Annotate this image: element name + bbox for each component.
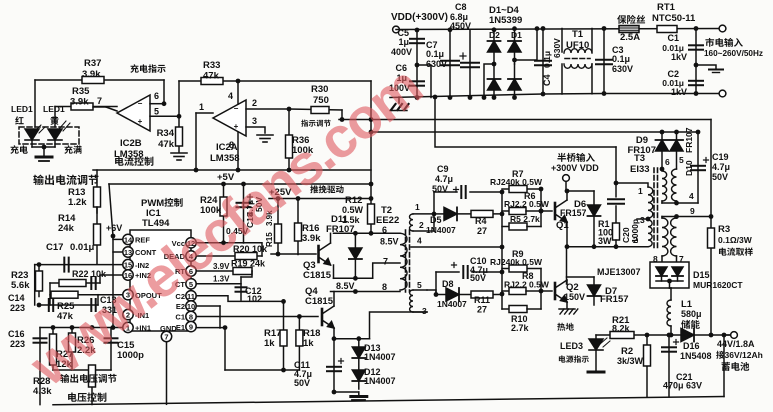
transistor Q2 MJE13007 (555, 280, 567, 302)
resistor R35 (71, 103, 93, 110)
resistor R26 (71, 328, 73, 371)
T2 secondary top (pins 1-2) (409, 214, 413, 231)
resistor R36 (288, 109, 290, 170)
label voltage control (68, 392, 106, 401)
svg-text:27: 27 (477, 305, 487, 315)
svg-text:1.3V: 1.3V (213, 275, 230, 284)
wire Q3 emitter row (334, 277, 373, 279)
svg-text:0.1Ω/3W: 0.1Ω/3W (718, 235, 753, 245)
wire IC2A pin4 supply (237, 81, 239, 104)
svg-text:3: 3 (422, 306, 427, 316)
resistor R37 (82, 77, 104, 84)
svg-text:R11: R11 (474, 295, 490, 305)
wire IC2A pin2 (246, 108, 289, 110)
svg-text:RJ2.2 0.5W: RJ2.2 0.5W (504, 199, 550, 209)
svg-text:T3: T3 (634, 153, 645, 164)
wire IC2A output pin1 (196, 112, 213, 114)
svg-text:2: 2 (419, 220, 424, 230)
svg-text:4: 4 (689, 191, 694, 201)
svg-text:TL494: TL494 (142, 218, 170, 229)
svg-text:D1: D1 (511, 30, 522, 40)
wire E2 row (196, 305, 220, 307)
svg-text:4: 4 (417, 236, 422, 246)
svg-text:9: 9 (189, 323, 193, 332)
resistor R7 (509, 186, 527, 193)
svg-text:0.1μ: 0.1μ (426, 49, 444, 59)
svg-text:1N4007: 1N4007 (364, 352, 396, 362)
svg-text:MUR1620CT: MUR1620CT (693, 280, 743, 290)
T3 primary winding (648, 187, 653, 218)
label indication adjust (301, 120, 330, 127)
wire C20 to T3 pin1 (616, 183, 648, 187)
svg-text:MJE13007: MJE13007 (597, 267, 641, 277)
wire GND pin down (166, 342, 168, 405)
svg-text:1: 1 (638, 186, 643, 196)
svg-text:LM358: LM358 (210, 153, 240, 164)
capacitor C18 (243, 184, 245, 243)
diode D2 (bridge top-left) (493, 30, 495, 64)
diode D6 (593, 191, 595, 247)
wire LED cathodes join (31, 140, 33, 147)
capacitor C4 (542, 29, 544, 95)
wire E1 row (196, 327, 225, 329)
capacitor C8 (469, 30, 471, 98)
wire C5/C6 midpoint branch (417, 65, 431, 98)
wire Q3 collector (330, 233, 332, 243)
wire IC2A pin8 (237, 132, 239, 170)
svg-text:D10: D10 (684, 160, 694, 176)
pin 16 +IN2 (123, 270, 133, 280)
svg-text:0.1μ: 0.1μ (612, 54, 630, 64)
svg-text:3.9k: 3.9k (302, 233, 321, 244)
svg-text:5: 5 (679, 155, 684, 165)
svg-text:T1: T1 (572, 29, 584, 40)
capacitor C11 (333, 339, 335, 392)
svg-text:3: 3 (252, 116, 257, 126)
svg-text:150V: 150V (564, 292, 585, 302)
svg-text:630V: 630V (426, 59, 447, 69)
svg-text:6: 6 (382, 225, 387, 235)
svg-text:−: − (234, 104, 239, 113)
wire Q4 emitter row (334, 338, 370, 340)
svg-text:1μ: 1μ (398, 37, 409, 47)
svg-text:630V: 630V (612, 64, 633, 74)
T2 secondary bottom (pins 5-3) (410, 290, 413, 312)
resistor R4 (457, 213, 502, 215)
transistor Q3 C1815 (319, 243, 331, 265)
svg-text:10: 10 (187, 302, 195, 311)
ground (under C6) (398, 97, 400, 103)
resistor R5 (502, 226, 509, 228)
op-amp IC2B LM358 (117, 95, 150, 131)
wire battery return (723, 335, 725, 397)
diode D1 (bridge top-right) (514, 29, 516, 64)
wire bridge AC tap left (484, 64, 494, 98)
svg-text:D16: D16 (683, 341, 700, 351)
wire R17/R18 bottom row (225, 369, 299, 371)
svg-text:C1815: C1815 (305, 296, 334, 307)
svg-text:36V/12Ah: 36V/12Ah (725, 350, 763, 360)
resistor R23 (38, 265, 40, 297)
diode D8 (436, 294, 446, 296)
svg-text:+: + (138, 117, 143, 126)
terminal mains L (719, 25, 726, 32)
label output voltage adjust (60, 374, 116, 383)
capacitor C20 + resistor R1 snubber (615, 147, 617, 197)
pin 11 C2 (186, 291, 196, 301)
svg-text:FR157: FR157 (560, 208, 587, 218)
T3 secondary winding right (671, 218, 677, 256)
wire L1 to output row (670, 326, 672, 335)
svg-text:REF: REF (135, 236, 150, 245)
svg-text:7: 7 (383, 257, 388, 267)
svg-text:C4: C4 (542, 74, 552, 86)
pin 6 RT (186, 266, 196, 276)
capacitor C13 plates (91, 277, 95, 289)
LED1 red/yellow dashed box (19, 127, 79, 144)
wire +IN2 branch (100, 275, 122, 283)
svg-text:14: 14 (124, 235, 133, 244)
resistor R2 (646, 335, 648, 397)
wire midpoint row (567, 246, 648, 248)
wire bottom return line (390, 94, 723, 98)
svg-text:1N5399: 1N5399 (489, 15, 522, 26)
wire emitters down to R17/R18 bottom row (224, 328, 226, 370)
svg-text:7: 7 (164, 333, 168, 342)
fuse 2.5A (619, 26, 639, 33)
resistor R13 (96, 170, 98, 213)
wire pin4 row (661, 201, 663, 203)
svg-text:5: 5 (154, 107, 159, 117)
node VDD (+300V) terminal (393, 26, 400, 33)
wire CT row (196, 283, 241, 285)
wire Q2 emitter (566, 302, 568, 308)
svg-text:5: 5 (417, 280, 422, 290)
pin 4 DEAD (186, 251, 196, 261)
svg-text:C16: C16 (8, 329, 25, 339)
svg-text:C8: C8 (455, 2, 467, 12)
capacitor C5 (416, 30, 418, 98)
svg-text:GND: GND (160, 324, 177, 333)
capacitor C7 (449, 30, 451, 98)
svg-text:1kV: 1kV (671, 52, 687, 62)
label current control (115, 156, 153, 165)
svg-text:3.9k: 3.9k (70, 97, 89, 108)
svg-text:R19 24k: R19 24k (231, 259, 266, 269)
T3 pin3 stub (637, 218, 648, 220)
wire junction R37 to pin6 (163, 80, 165, 104)
terminal battery + (731, 332, 738, 339)
resistor R28 (91, 370, 93, 405)
wire Q1 collector row to D6 (567, 190, 594, 192)
capacitor C10 (435, 272, 437, 295)
svg-text:LED1: LED1 (43, 104, 65, 114)
wire R30 down to sense line (341, 110, 343, 120)
resistor R7 row (502, 188, 541, 190)
diode D7 (567, 276, 595, 278)
wire Q1 emitter (566, 222, 568, 247)
wire R20 up (244, 243, 263, 256)
terminal +300V half-bridge (563, 175, 570, 182)
svg-text:1N5408: 1N5408 (680, 351, 712, 361)
transistor Q1 MJE13007 (555, 200, 567, 222)
wire halfbridge line y147 (435, 97, 616, 147)
svg-text:470μ 63V: 470μ 63V (663, 381, 702, 391)
svg-text:8: 8 (382, 282, 387, 292)
label charge indication (130, 64, 165, 73)
svg-text:2: 2 (633, 235, 638, 245)
svg-text:1k: 1k (303, 338, 314, 349)
wire Q2 collector (566, 280, 568, 284)
svg-text:R5 2.7k: R5 2.7k (510, 214, 540, 224)
diode D3 (bridge bottom-left) (493, 64, 495, 98)
pin 10 E2 (186, 301, 196, 311)
resistor R34 (178, 116, 180, 152)
resistor R25 (51, 291, 78, 298)
svg-text:223: 223 (10, 303, 25, 313)
LED1 yellow diode (48, 129, 62, 140)
resistor R15 (277, 199, 279, 255)
wire IC2A pin3 (246, 127, 265, 133)
svg-text:R33: R33 (203, 60, 220, 71)
diode D12 (352, 370, 365, 381)
resistor R11 (459, 294, 502, 296)
pin 15 -IN2 (123, 259, 133, 269)
svg-text:LED1: LED1 (11, 104, 33, 114)
wire Q4 collector (333, 292, 335, 307)
label mains input (705, 38, 742, 47)
wire output row (596, 334, 731, 336)
label push-pull drive (310, 185, 343, 193)
T3 aux winding left pin6 (660, 167, 665, 172)
svg-text:2: 2 (252, 98, 257, 108)
wire Q4 emitter (333, 328, 335, 339)
diode D4 (bridge bottom-right) (514, 64, 516, 98)
svg-text:RT1: RT1 (657, 2, 676, 13)
svg-text:D2: D2 (489, 30, 500, 40)
svg-text:1: 1 (415, 202, 420, 212)
svg-text:C1815: C1815 (303, 270, 332, 281)
resistor R9 row (502, 268, 541, 270)
svg-text:D5: D5 (430, 215, 442, 225)
svg-text:8.5V: 8.5V (336, 281, 355, 291)
resistor R10 (502, 308, 509, 310)
svg-text:5.6k: 5.6k (11, 280, 30, 291)
diode D13 (352, 347, 365, 358)
svg-text:7: 7 (97, 96, 102, 106)
svg-text:+6V: +6V (106, 223, 122, 233)
resistor R6 row (502, 210, 509, 212)
capacitor C19 (697, 132, 699, 203)
resistor R19 (233, 268, 252, 275)
resistor R16 (297, 199, 299, 255)
wire base row to Q1 (526, 210, 552, 212)
wire top 300V/AC line (396, 29, 723, 30)
wire aux supply line y132 (371, 131, 698, 133)
capacitor C12 (241, 271, 252, 277)
svg-text:4.7μ: 4.7μ (435, 174, 453, 184)
wire pin2 stub (433, 214, 435, 231)
pin 7 GND (161, 331, 171, 341)
wire IC2B pin6 (150, 103, 164, 105)
capacitor C2 (689, 81, 703, 85)
T3 core dashes (653, 168, 655, 250)
T2 core (405, 230, 407, 292)
op-amp IC2A LM358 (213, 100, 246, 136)
IC1 TL494 body (130, 230, 191, 331)
wire pin 8 row (331, 291, 401, 293)
svg-text:D8: D8 (442, 279, 454, 289)
pin 1 +IN1 (123, 322, 133, 332)
wire Q3 base row (271, 253, 316, 255)
capacitor C9 (433, 192, 435, 214)
svg-text:13: 13 (124, 248, 132, 257)
svg-text:FR107: FR107 (684, 127, 694, 153)
capacitor C16 (39, 328, 41, 405)
wire CONT pin row (113, 251, 122, 253)
svg-text:C1: C1 (667, 33, 679, 43)
svg-text:6: 6 (665, 157, 670, 167)
label output current adjust (33, 175, 98, 185)
svg-text:FR107: FR107 (326, 224, 355, 235)
svg-text:IC2A: IC2A (216, 142, 238, 153)
ground (LED) (43, 147, 45, 155)
wire D5 row (434, 213, 444, 215)
diode D10 (676, 132, 678, 169)
pin 3 OPOUT (123, 290, 133, 300)
svg-text:44V/1.8A: 44V/1.8A (717, 339, 755, 349)
ground (IC2A pin3) (257, 135, 273, 142)
wire R37 top line (35, 79, 164, 81)
inductor L1 (667, 300, 671, 326)
svg-text:0.1μ: 0.1μ (542, 51, 552, 68)
svg-text:750: 750 (313, 95, 329, 106)
pin 9 E1 (186, 321, 196, 331)
svg-text:C19: C19 (712, 152, 729, 162)
svg-text:RJ240k 0.5W: RJ240k 0.5W (490, 257, 543, 267)
pin 2 -IN1 (123, 309, 133, 319)
svg-text:1N4007: 1N4007 (426, 225, 456, 235)
resistor R24 (223, 184, 225, 243)
rectifier D15 MUR1620CT (650, 262, 689, 288)
resistor R20 (235, 253, 257, 260)
capacitor C3 (603, 29, 605, 94)
wire pin9 row (662, 216, 677, 218)
svg-text:VDD(+300V): VDD(+300V) (391, 12, 448, 23)
wire C11/D12 gnd row (334, 391, 359, 393)
wire drive col x502 (501, 192, 503, 309)
wire R33 line (179, 80, 371, 82)
capacitor C21 (668, 335, 670, 397)
svg-text:FR157: FR157 (600, 294, 629, 305)
pin 5 CT (186, 279, 196, 289)
svg-text:6: 6 (154, 91, 159, 101)
svg-text:3W: 3W (598, 236, 612, 246)
svg-text:50V: 50V (432, 184, 448, 194)
wire control line y170 (93, 169, 371, 171)
svg-text:3k/3W: 3k/3W (617, 356, 644, 366)
wire R33 feedback vertical (178, 81, 180, 116)
svg-text:24k: 24k (58, 223, 75, 234)
svg-text:2.7k: 2.7k (511, 323, 530, 333)
resistor R18 (298, 317, 300, 371)
resistor R14 (96, 207, 98, 264)
svg-text:0.01μ: 0.01μ (70, 242, 94, 253)
ground (mains filter) (696, 65, 716, 69)
svg-text:102: 102 (247, 294, 262, 304)
resistor R12 (370, 199, 372, 234)
pin 13 CONT (123, 247, 133, 257)
wire col x541 lower (540, 269, 542, 310)
resistor R27 (52, 328, 54, 371)
wire +5V left drop (109, 184, 113, 236)
svg-text:R34: R34 (157, 128, 175, 139)
svg-text:C17: C17 (46, 242, 63, 253)
diode D5 (444, 207, 457, 220)
svg-text:+: + (234, 122, 239, 131)
svg-text:R30: R30 (311, 84, 328, 95)
wire current sense line (339, 119, 711, 121)
wire Q1 collector (566, 191, 568, 200)
wire LED yellow drop (54, 107, 56, 128)
wire +5V rail (109, 183, 371, 185)
svg-text:NTC50-11: NTC50-11 (652, 13, 696, 24)
svg-text:8.2k: 8.2k (612, 324, 631, 334)
wire IC2B pin5 (150, 115, 179, 117)
terminal mains N (719, 90, 726, 97)
svg-text:EE22: EE22 (376, 215, 399, 226)
wire REF pin row (113, 238, 122, 240)
wire D13/D12 column (358, 339, 360, 389)
wire pin5 stub (427, 290, 436, 295)
capacitor C6 (410, 81, 424, 85)
resistor R6 (509, 208, 526, 215)
wire col x541 (540, 189, 542, 227)
svg-text:450V: 450V (450, 21, 471, 31)
diode D9 (661, 132, 663, 169)
svg-text:R35: R35 (72, 86, 90, 97)
LED1 red diode (25, 129, 39, 140)
wire pin7 jog (373, 263, 400, 278)
capacitor C17 row (35, 264, 122, 266)
svg-text:−: − (138, 99, 143, 108)
svg-text:R22 10k: R22 10k (72, 269, 107, 279)
pin 8 C1 (186, 311, 196, 321)
resistor R21 (610, 332, 634, 339)
wire vertical x371 (370, 81, 372, 199)
resistor R33 (201, 78, 223, 85)
svg-text:E1: E1 (176, 323, 185, 332)
svg-text:1.2k: 1.2k (68, 197, 87, 208)
svg-text:160~260V/50Hz: 160~260V/50Hz (704, 49, 763, 58)
svg-text:C1: C1 (175, 313, 185, 322)
svg-text:RJ2.2 0.5W: RJ2.2 0.5W (504, 280, 550, 290)
svg-text:LED3: LED3 (560, 341, 583, 351)
hot ground (559, 309, 578, 314)
pin 12 Vcc (186, 238, 196, 248)
svg-text:580μ: 580μ (681, 309, 702, 319)
wire bottom rail (53, 397, 724, 405)
svg-text:1N4007: 1N4007 (364, 376, 396, 386)
resistor R8 (502, 290, 509, 292)
resistor R17 (283, 301, 285, 370)
wire T2 pin4 row (411, 246, 502, 248)
svg-text:50V: 50V (712, 172, 728, 182)
svg-text:1k: 1k (264, 338, 275, 349)
svg-text:630V: 630V (552, 38, 562, 58)
wire left rail (34, 265, 36, 305)
svg-text:9: 9 (690, 206, 695, 216)
